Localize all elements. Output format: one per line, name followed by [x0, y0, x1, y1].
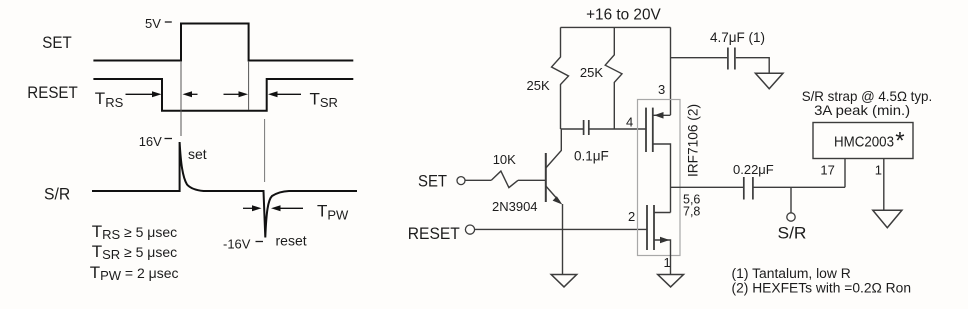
pin 17 lead [844, 159, 846, 188]
RESET waveform [93, 79, 353, 111]
pin 1 lead (HMC2003) [883, 158, 885, 210]
ground (HMC2003 pin 1) [873, 210, 902, 228]
wire 10K to base [518, 179, 545, 181]
svg-text:3: 3 [658, 82, 665, 97]
HMC2003 box U1 [813, 123, 913, 159]
wire to 4.7uF cap [671, 57, 728, 59]
capacitor 0.1uF [583, 120, 585, 135]
svg-text:RESET: RESET [408, 224, 460, 243]
svg-text:4.7μF (1): 4.7μF (1) [710, 30, 765, 45]
svg-text:S/R: S/R [778, 224, 807, 243]
TPW arrow left [243, 207, 253, 209]
svg-text:(2) HEXFETs with =0.2Ω Ron: (2) HEXFETs with =0.2Ω Ron [732, 281, 912, 296]
resistor 25K left [552, 27, 569, 129]
ground (FET source) [658, 275, 684, 287]
svg-text:0.1μF: 0.1μF [574, 149, 609, 164]
TRS arrow [126, 93, 154, 95]
svg-text:+16 to 20V: +16 to 20V [586, 7, 661, 24]
FET Q3 bottom (IRF7106 n-channel half) [646, 205, 648, 250]
-16V level tick [256, 241, 264, 243]
svg-text:RESET: RESET [27, 83, 78, 102]
wire rail down to FET drain (pin3) [670, 27, 672, 115]
wire 0.22uF to pin 17 [754, 186, 846, 188]
transistor Q1 2N3904 [545, 153, 547, 202]
svg-text:IRF7106 (2): IRF7106 (2) [686, 104, 701, 177]
guide line from SET rising edge [180, 61, 182, 136]
svg-text:*: * [895, 128, 904, 155]
wire 4.7uF to ground [736, 58, 769, 74]
TPW arrow right [271, 205, 281, 211]
svg-text:HMC2003: HMC2003 [834, 135, 894, 151]
svg-text:SET: SET [418, 172, 447, 191]
svg-text:S/R: S/R [44, 184, 70, 203]
wire FET output to 0.22uF [671, 186, 744, 188]
resistor 25K middle [605, 27, 622, 129]
svg-text:2: 2 [628, 209, 635, 224]
wire SET to 10K [465, 179, 491, 181]
svg-text:3A peak (min.): 3A peak (min.) [814, 102, 910, 118]
guide line from RESET rising edge [264, 119, 266, 182]
svg-text:1: 1 [875, 163, 882, 178]
svg-text:TSR ≥ 5 μsec: TSR ≥ 5 μsec [92, 242, 177, 262]
svg-text:TSR: TSR [310, 89, 338, 110]
svg-text:SET: SET [42, 33, 71, 52]
capacitor 0.22uF [743, 177, 745, 200]
supply rail wire [561, 26, 671, 28]
RESET terminal [465, 225, 474, 234]
svg-text:TPW: TPW [317, 202, 349, 223]
wire emitter to ground [562, 204, 564, 275]
svg-text:TPW = 2 μsec: TPW = 2 μsec [90, 263, 179, 283]
capacitor 4.7uF [727, 48, 729, 70]
svg-text:reset: reset [276, 233, 307, 249]
pulse width arrow right (points right at SET falling edge) [224, 93, 240, 95]
svg-text:4: 4 [626, 115, 633, 130]
svg-text:TRS ≥ 5 μsec: TRS ≥ 5 μsec [92, 222, 177, 242]
S/R terminal [787, 213, 795, 221]
FET Q2 top (IRF7106 p-channel half) [645, 108, 647, 152]
ground (4.7uF) [755, 73, 783, 88]
resistor 10K [491, 171, 518, 188]
svg-text:25K: 25K [527, 78, 550, 93]
S/R waveform with set spike [92, 142, 357, 238]
svg-text:-16V: -16V [223, 237, 251, 252]
guide line from SET falling edge [248, 61, 250, 110]
ground (Q1 emitter) [551, 275, 577, 287]
svg-text:2N3904: 2N3904 [492, 199, 538, 214]
svg-text:16V: 16V [139, 134, 162, 149]
TSR arrow [268, 91, 278, 97]
S/R output stub [790, 187, 792, 212]
svg-text:5V: 5V [145, 16, 161, 31]
svg-text:25K: 25K [580, 65, 603, 80]
16V level tick [165, 138, 173, 140]
SET waveform [93, 24, 353, 61]
wire 25K-left / collector to 0.1uF [561, 128, 584, 130]
HEXFET package outline box [638, 100, 681, 256]
pulse width arrow left (points left at SET rising edge) [183, 91, 193, 97]
svg-text:set: set [188, 146, 207, 162]
svg-text:TRS: TRS [95, 89, 124, 110]
svg-text:7,8: 7,8 [683, 205, 700, 219]
svg-text:0.22μF: 0.22μF [733, 162, 774, 177]
svg-text:1: 1 [664, 255, 671, 270]
svg-text:(1) Tantalum, low R: (1) Tantalum, low R [732, 266, 852, 281]
5V level tick [165, 21, 172, 23]
wire 0.1uF to FET gate (pin4) [589, 128, 646, 130]
svg-text:17: 17 [820, 163, 834, 178]
SET terminal [457, 177, 465, 185]
svg-text:10K: 10K [493, 152, 516, 167]
wire RESET to FET gate (pin2) [475, 228, 647, 230]
